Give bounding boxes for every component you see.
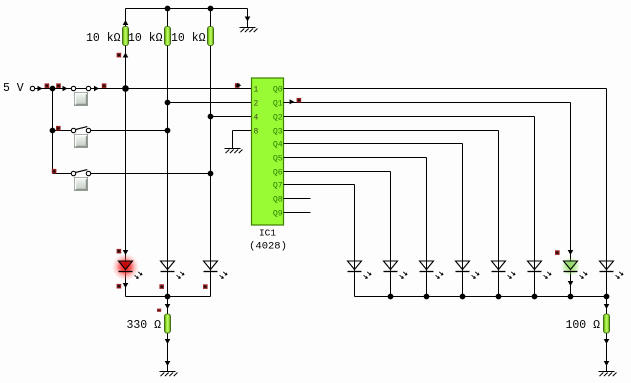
junction: R3 to top rail xyxy=(208,6,214,12)
switch S2 pushbutton widget xyxy=(75,135,88,148)
junction: column 3 to pin-4 row xyxy=(208,114,214,120)
svg-text:Q0: Q0 xyxy=(273,86,283,95)
port marker at source xyxy=(45,83,50,88)
port marker above LED D1 xyxy=(117,249,122,254)
switch S1 pushbutton widget xyxy=(75,93,88,106)
direction arrow above R5 xyxy=(604,304,610,309)
LED D1 glow (lit red) xyxy=(112,254,139,281)
ground (pull-down rail) xyxy=(240,28,258,33)
direction arrow below R1 xyxy=(123,53,129,58)
direction arrow from source xyxy=(38,86,43,92)
wire: left rail down to ground via R4 xyxy=(167,297,169,372)
wire: S3 output to input-4 column xyxy=(91,173,211,175)
wire: Q4 output row xyxy=(284,143,463,145)
resistor R5 body xyxy=(604,314,610,333)
junction: source node xyxy=(50,86,56,92)
LED for Q4 output xyxy=(456,261,480,279)
LED D3 (input 4 indicator) xyxy=(204,261,228,279)
LED for Q6 output xyxy=(384,261,408,279)
switch S1 contacts xyxy=(71,86,90,90)
wire: Q2 output row xyxy=(284,116,535,118)
voltage source terminal xyxy=(30,86,34,90)
switch S2 contacts xyxy=(71,127,90,133)
direction arrow below R4 xyxy=(165,339,171,344)
LED Q1 glow (lit green) xyxy=(561,257,580,276)
port marker below LED D2 xyxy=(159,284,164,289)
resistor R2 body xyxy=(165,27,171,46)
svg-text:Q6: Q6 xyxy=(273,169,283,178)
direction arrow into right ground xyxy=(604,361,610,366)
ground (left LED rail) xyxy=(160,372,178,377)
wire: S3 input segment xyxy=(53,173,72,175)
wire: weight-4 row to IC pin 4 xyxy=(211,116,252,118)
wire: S2 input segment xyxy=(53,130,72,132)
direction arrow into Q1 LED xyxy=(568,250,574,255)
wire: Q9 stub (unconnected) xyxy=(284,212,311,214)
wire: Q3 output row xyxy=(284,130,499,132)
svg-text:4: 4 xyxy=(254,114,259,123)
svg-text:(4028): (4028) xyxy=(249,241,287,253)
wire: left LED common rail xyxy=(126,296,211,298)
svg-text:Q7: Q7 xyxy=(273,182,283,191)
wire: top pull-down rail xyxy=(126,8,248,10)
wire: Q7 drop to LED column xyxy=(354,185,356,297)
LED for Q0 output xyxy=(600,261,624,279)
wire: Q6 drop to LED column xyxy=(390,172,392,297)
port marker below LED D3 xyxy=(203,284,208,289)
LED D2 (input 2 indicator) xyxy=(161,261,185,279)
junction: right rail xyxy=(532,294,538,300)
wire: pin 8 drop to ground xyxy=(232,131,234,149)
resistor R1 body xyxy=(123,27,129,46)
direction arrow out of Q1 LED xyxy=(568,281,574,286)
wire: Q5 output row xyxy=(284,157,427,159)
junction: right rail xyxy=(604,294,610,300)
port marker at S3 input xyxy=(52,169,57,174)
direction arrow to switch S1 xyxy=(63,86,68,92)
junction: right rail xyxy=(388,294,394,300)
junction: S2 output to column 2 xyxy=(165,128,171,134)
svg-text:IC1: IC1 xyxy=(259,228,276,239)
junction: S2 tap xyxy=(50,128,56,134)
LED for Q5 output xyxy=(420,261,444,279)
wire: Q0 output row xyxy=(284,88,607,90)
port marker above R4 xyxy=(157,309,161,312)
svg-text:Q8: Q8 xyxy=(273,196,283,205)
resistor R3 body xyxy=(208,27,214,46)
LED for Q7 output xyxy=(348,261,372,279)
wire: resistor R1 / input-1 column xyxy=(125,9,127,297)
LED D1 (input 1 indicator, lit) xyxy=(119,261,143,279)
port marker right of source node xyxy=(56,83,61,88)
svg-text:Q2: Q2 xyxy=(273,114,283,123)
svg-text:10 kΩ: 10 kΩ xyxy=(128,32,163,45)
junction: right rail xyxy=(460,294,466,300)
junction: R2 to top rail xyxy=(165,6,171,12)
switch S3 contacts xyxy=(71,170,90,176)
svg-text:Q4: Q4 xyxy=(273,141,283,150)
svg-text:10 kΩ: 10 kΩ xyxy=(171,32,206,45)
direction arrow out of LED D1 xyxy=(123,283,129,288)
port marker above Q1 LED xyxy=(555,250,560,255)
direction arrow above R1 xyxy=(123,20,129,25)
resistor R4 body xyxy=(165,314,171,333)
wire: Q7 output row xyxy=(284,184,355,186)
port marker on Q1 output xyxy=(297,98,302,103)
switch S3 pushbutton widget xyxy=(75,178,88,191)
wire: IC pin 8 stub xyxy=(233,130,252,132)
wire: Q2 drop to LED column xyxy=(534,117,536,297)
svg-text:Q5: Q5 xyxy=(273,155,283,164)
junction: column 2 to pin-2 row xyxy=(165,100,171,106)
wire: Q0 drop to LED column xyxy=(606,89,608,297)
svg-text:1: 1 xyxy=(254,86,259,95)
svg-text:10 kΩ: 10 kΩ xyxy=(86,32,121,45)
LED for Q2 output xyxy=(528,261,552,279)
LED for Q1 output (lit) xyxy=(564,261,588,279)
svg-text:330 Ω: 330 Ω xyxy=(126,319,161,332)
junction: S3 output to column 3 xyxy=(208,171,214,177)
direction arrow above R4 xyxy=(165,304,171,309)
port marker at IC pin 1 xyxy=(235,83,240,88)
wire: source node down to switches S2/S3 xyxy=(52,89,54,174)
direction arrow into ground xyxy=(245,17,251,22)
wire: Q4 drop to LED column xyxy=(462,144,464,297)
junction: right rail xyxy=(424,294,430,300)
port marker at S2 input xyxy=(56,126,61,131)
junction: left rail to R4 xyxy=(165,294,171,300)
svg-text:Q1: Q1 xyxy=(273,100,283,109)
op-amp / IC U1: 4028 BCD decoder body xyxy=(252,78,284,225)
svg-text:100 Ω: 100 Ω xyxy=(565,319,600,332)
direction arrow on Q1 output xyxy=(290,99,295,104)
wire: Q6 output row xyxy=(284,171,391,173)
wire: resistor R3 / input-4 column xyxy=(210,9,212,297)
wire: Q1 drop to LED column xyxy=(570,103,572,297)
junction: right rail xyxy=(568,294,574,300)
direction arrow after switch S1 xyxy=(94,86,99,92)
ground (right LED rail) xyxy=(599,372,617,377)
svg-text:5 V: 5 V xyxy=(3,82,24,95)
svg-text:Q3: Q3 xyxy=(273,128,283,137)
junction: input-1 column to 5V row xyxy=(122,85,129,92)
wire: Q8 stub (unconnected) xyxy=(284,198,311,200)
wire: right LED common rail xyxy=(355,296,607,298)
direction arrow into IC pin 1 xyxy=(237,83,241,88)
wire: 5V / weight-1 input row to IC pin 1 xyxy=(35,88,252,90)
wire: resistor R2 / input-2 column xyxy=(167,9,169,297)
wire: right rail down to ground via R5 xyxy=(606,297,608,372)
svg-text:2: 2 xyxy=(254,100,259,109)
direction arrow into left ground xyxy=(165,361,171,366)
direction arrow into LED D1 xyxy=(123,250,129,255)
wire: Q3 drop to LED column xyxy=(498,131,500,297)
wire: S2 output to input-2 column xyxy=(91,130,168,132)
svg-text:8: 8 xyxy=(254,128,259,137)
svg-text:Q9: Q9 xyxy=(273,210,283,219)
port marker below LED D1 xyxy=(117,284,122,289)
ground (IC pin 8) xyxy=(225,149,243,154)
junction: right rail xyxy=(496,294,502,300)
wire: drop to top-right ground xyxy=(247,9,249,28)
LED for Q3 output xyxy=(492,261,516,279)
direction arrow below R5 xyxy=(604,339,610,344)
port marker below R1 xyxy=(117,53,122,58)
wire: Q1 output row xyxy=(284,102,571,104)
port marker after S1 xyxy=(102,83,107,88)
wire: Q5 drop to LED column xyxy=(426,158,428,297)
wire: weight-2 row to IC pin 2 xyxy=(168,102,252,104)
